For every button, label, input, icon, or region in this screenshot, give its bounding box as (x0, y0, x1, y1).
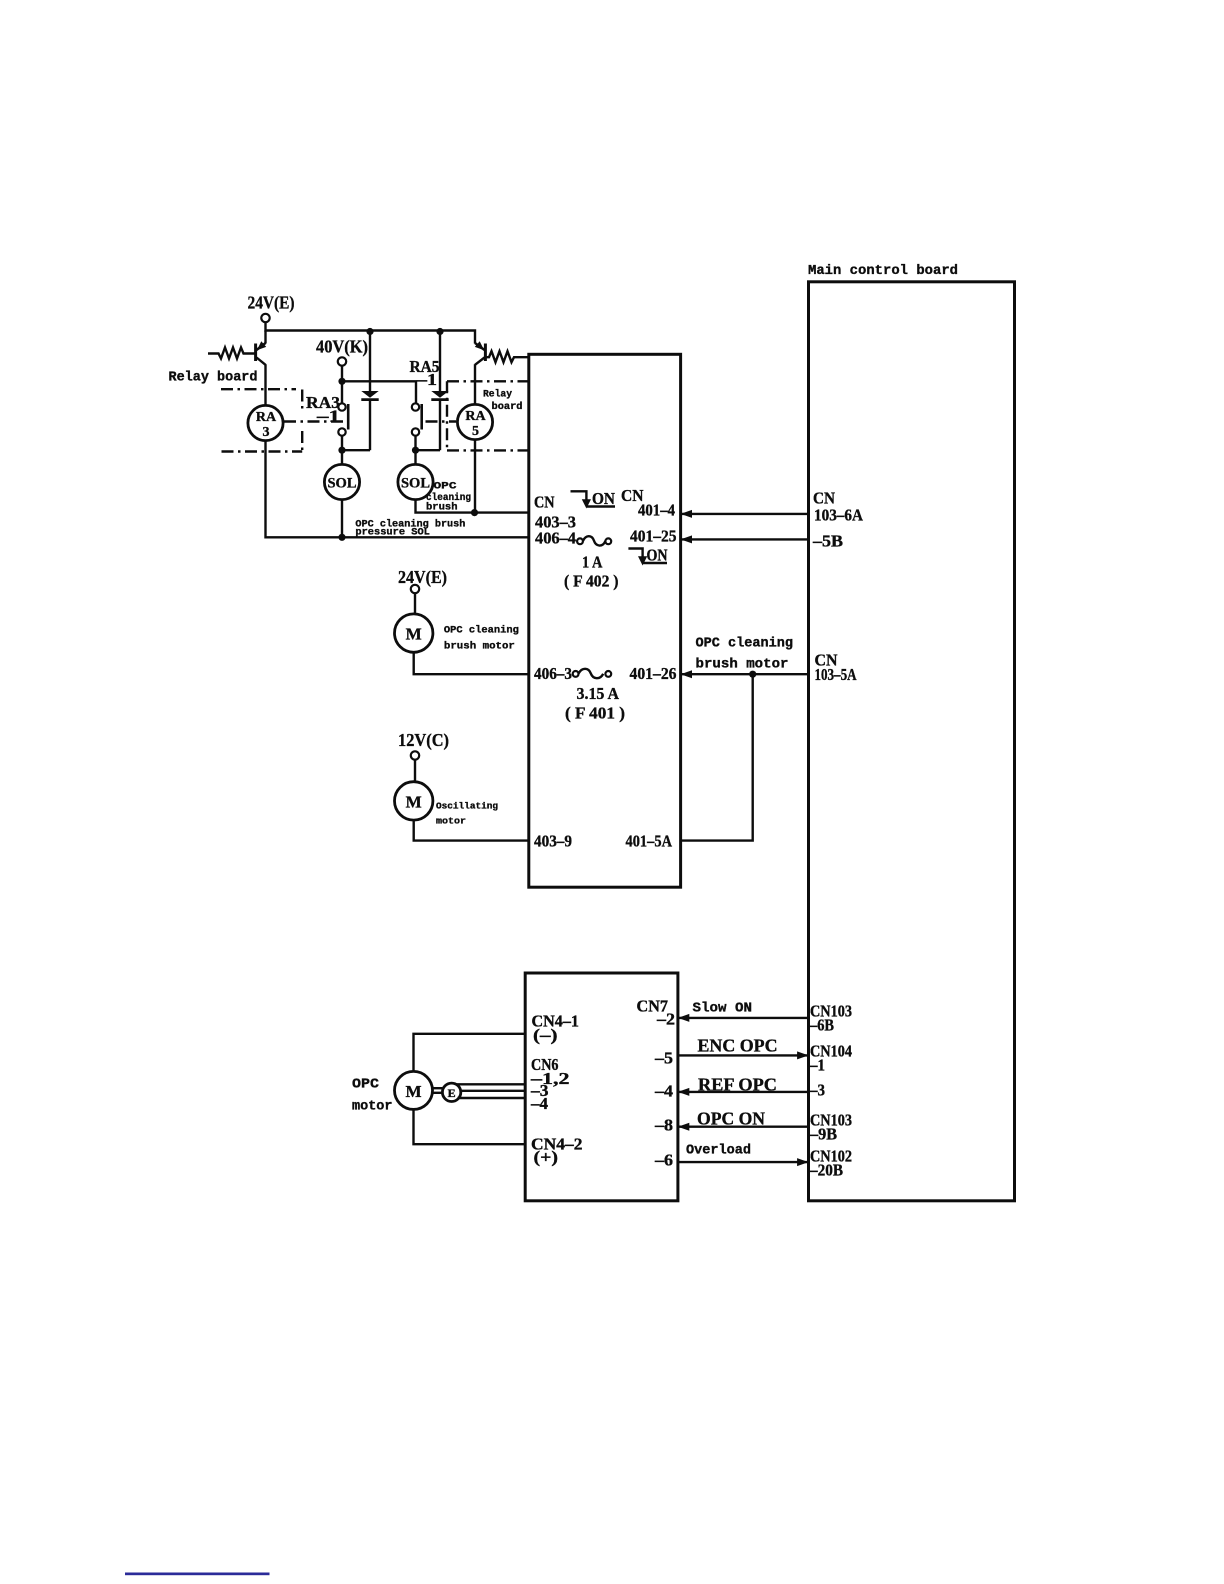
label 1 A (F402) (564, 553, 619, 591)
solenoid SOL2 (OPC cleaning brush SOL) (398, 450, 475, 512)
svg-text:12V(C): 12V(C) (398, 730, 449, 751)
wire encoder bundle 3 (458, 1097, 526, 1099)
contact RA3-1 (338, 403, 348, 450)
svg-text:Oscillating: Oscillating (436, 801, 498, 812)
wire RA5 coil down (474, 440, 476, 513)
svg-text:pressure SOL: pressure SOL (355, 526, 430, 538)
svg-text:RA: RA (256, 410, 277, 425)
svg-text:24V(E): 24V(E) (398, 567, 447, 588)
pin label CN103 -6B (809, 1002, 852, 1035)
svg-text:24V(E): 24V(E) (248, 293, 295, 314)
wire Q1 emitter stem (264, 331, 266, 344)
wire CN4-1 (-) (414, 1034, 526, 1072)
svg-text:1 A: 1 A (582, 553, 603, 572)
wire encoder bundle 1 (457, 1083, 526, 1085)
svg-text:406–3: 406–3 (534, 664, 572, 683)
svg-text:403–9: 403–9 (534, 832, 572, 851)
svg-text:brush motor: brush motor (696, 658, 789, 673)
main control board block (809, 282, 1015, 1201)
node 24V(E) motor supply terminal (398, 567, 447, 593)
svg-text:Main control board: Main control board (808, 263, 958, 279)
svg-text:3: 3 (263, 425, 270, 440)
junction RA5-1 bottom (412, 447, 419, 454)
transistor Q2 (PNP, right) (475, 341, 486, 405)
node 40V(K) supply terminal (316, 337, 368, 366)
svg-text:RA: RA (465, 409, 486, 424)
svg-text:Relay board: Relay board (169, 371, 258, 386)
label OPC motor (352, 1078, 393, 1115)
svg-text:–1: –1 (809, 1056, 825, 1075)
svg-text:–3: –3 (809, 1081, 825, 1100)
shaft coupling M-E (433, 1088, 443, 1093)
encoder E (OPC motor) (442, 1083, 460, 1101)
svg-text:–1: –1 (416, 370, 437, 389)
label RA5-1 (410, 357, 440, 389)
wire encoder bundle 2 (461, 1090, 525, 1092)
svg-text:brush: brush (426, 502, 458, 514)
diode D2 (431, 328, 448, 450)
pin label CN4-1 (-) (532, 1012, 580, 1045)
svg-text:40V(K): 40V(K) (316, 337, 368, 358)
footer rule (blue) (125, 1573, 270, 1576)
wire 40V feed (342, 366, 416, 404)
svg-text:( F 401 ): ( F 401 ) (565, 704, 625, 723)
svg-text:401–5A: 401–5A (626, 832, 673, 851)
pin label CN6 -1,2 -3 -4 (530, 1055, 570, 1113)
svg-text:103–5A: 103–5A (815, 665, 857, 684)
svg-text:REF OPC: REF OPC (698, 1075, 777, 1095)
linkage RA5 to contact (426, 420, 457, 422)
label OPC cleaning brush motor (M1) (444, 625, 519, 653)
node 12V(C) supply terminal (398, 730, 449, 760)
wire 401-26 to CN103-5A (681, 673, 809, 675)
svg-text:M: M (406, 792, 422, 811)
svg-text:board: board (492, 401, 523, 413)
linkage RA3 to contact (284, 420, 346, 422)
svg-text:Overload: Overload (686, 1144, 751, 1159)
svg-text:OPC ON: OPC ON (697, 1109, 765, 1129)
svg-text:OPC cleaning: OPC cleaning (444, 625, 519, 637)
label Relay board (right) (483, 389, 523, 414)
label OPC cleaning brush pressure SOL (355, 518, 465, 538)
wire CN4-2 (+) (414, 1110, 526, 1145)
svg-text:SOL: SOL (401, 476, 430, 492)
svg-text:–4: –4 (530, 1094, 548, 1113)
svg-text:OPC: OPC (434, 481, 458, 493)
wire SOL pressure return to CN406-4 (266, 441, 529, 538)
resistor R2 (Q2 base) (486, 351, 529, 362)
svg-text:–5B: –5B (812, 532, 843, 551)
pin label CN104 -1 (809, 1042, 852, 1075)
wire OPC ON (678, 1109, 809, 1131)
svg-text:–6: –6 (654, 1151, 673, 1170)
svg-text:(–): (–) (533, 1026, 558, 1045)
label OPC cleaning brush motor (wire) (696, 637, 794, 673)
svg-text:–4: –4 (654, 1082, 673, 1101)
svg-text:E: E (448, 1086, 456, 1100)
svg-text:M: M (405, 1082, 421, 1101)
svg-text:CN: CN (534, 493, 555, 512)
junction 40V (338, 378, 345, 385)
relay coil RA5 (457, 404, 492, 439)
wire Overload (678, 1144, 809, 1167)
wire D2 return (416, 449, 441, 451)
OPC motor driver board block (525, 973, 678, 1201)
node 24V(E) supply terminal (248, 293, 295, 323)
svg-text:–2: –2 (656, 1010, 675, 1029)
svg-text:SOL: SOL (328, 476, 357, 492)
symbol ON step (401-4) (571, 489, 616, 509)
pin label CN4-2 (+) (531, 1135, 583, 1167)
pin label CN 401-4 (621, 486, 675, 520)
resistor R1 (Q1 base) (208, 348, 255, 359)
svg-text:401–4: 401–4 (638, 501, 675, 520)
svg-text:motor: motor (436, 816, 466, 827)
pin label CN 103-5A (815, 651, 857, 685)
wire 24V rail (266, 322, 476, 343)
pin label CN 403-3 (534, 493, 576, 532)
label Oscillating motor (436, 801, 498, 827)
svg-text:ON: ON (592, 489, 615, 508)
svg-text:ENC OPC: ENC OPC (698, 1036, 778, 1056)
svg-text:( F 402 ): ( F 402 ) (564, 572, 619, 591)
relay coil RA3 (248, 405, 283, 440)
svg-text:–20B: –20B (809, 1161, 843, 1180)
motor M3 (OPC motor) (395, 1071, 433, 1109)
svg-text:–6B: –6B (809, 1016, 834, 1035)
junction CN403-3 (471, 509, 478, 516)
svg-text:401–26: 401–26 (630, 664, 677, 683)
svg-text:ON: ON (647, 546, 668, 565)
solenoid SOL1 (OPC cleaning brush pressure SOL) (324, 450, 359, 537)
contact RA5-1 (412, 403, 422, 450)
junction RA3-1 bottom (338, 447, 345, 454)
pin label CN102 -20B (809, 1147, 852, 1180)
svg-text:Relay: Relay (483, 389, 513, 401)
svg-text:motor: motor (352, 1100, 393, 1115)
dash-dot box relay board RA5 (447, 381, 529, 450)
pin label CN7 -2 (637, 997, 676, 1029)
svg-text:–5: –5 (654, 1049, 673, 1068)
transistor Q1 (PNP, left) (256, 341, 267, 406)
pin label CN103 -9B (809, 1111, 852, 1144)
wire REF OPC (678, 1075, 809, 1096)
svg-text:–8: –8 (654, 1116, 673, 1135)
wire 40V to RA3-1 contact (341, 381, 343, 403)
wire CN401-4 to CN103-6A (681, 513, 809, 515)
svg-text:(+): (+) (534, 1148, 559, 1167)
svg-text:OPC: OPC (352, 1078, 379, 1093)
svg-text:–9B: –9B (809, 1125, 837, 1144)
svg-text:M: M (406, 625, 422, 644)
fuse F402 (577, 536, 611, 545)
symbol ON step (401-25) (628, 546, 667, 566)
wire to CN403-3 (475, 511, 529, 513)
wire CN401-25 to CN103-5B (681, 538, 809, 540)
motor M2 (Oscillating motor) (395, 760, 529, 841)
svg-text:3.15 A: 3.15 A (577, 684, 620, 703)
pin label CN 103-6A (813, 489, 863, 525)
svg-text:5: 5 (472, 424, 479, 439)
svg-text:Slow ON: Slow ON (693, 1001, 753, 1017)
wire D1 return (342, 449, 370, 451)
label OPC cleaning brush (SOL2) (426, 481, 471, 514)
label RA3-1 (306, 393, 340, 426)
wire ENC OPC (678, 1036, 809, 1060)
junction SOL1 bottom (338, 534, 345, 541)
fuse F401 (573, 669, 612, 678)
diode D1 (361, 328, 378, 450)
svg-text:OPC cleaning: OPC cleaning (696, 637, 794, 652)
motor M1 (OPC cleaning brush motor) (395, 593, 529, 674)
wire 401-5A branch (681, 674, 753, 840)
svg-text:401–25: 401–25 (630, 527, 677, 546)
svg-text:103–6A: 103–6A (814, 506, 863, 525)
dash-dot box relay board RA3 (221, 389, 302, 451)
junction 401-26 branch (749, 671, 756, 678)
power/fuse board block (529, 354, 681, 887)
wire Slow ON (678, 1001, 809, 1022)
svg-text:brush motor: brush motor (444, 641, 515, 653)
svg-text:406–4: 406–4 (535, 529, 576, 548)
label 3.15 A (F401) (565, 684, 625, 723)
